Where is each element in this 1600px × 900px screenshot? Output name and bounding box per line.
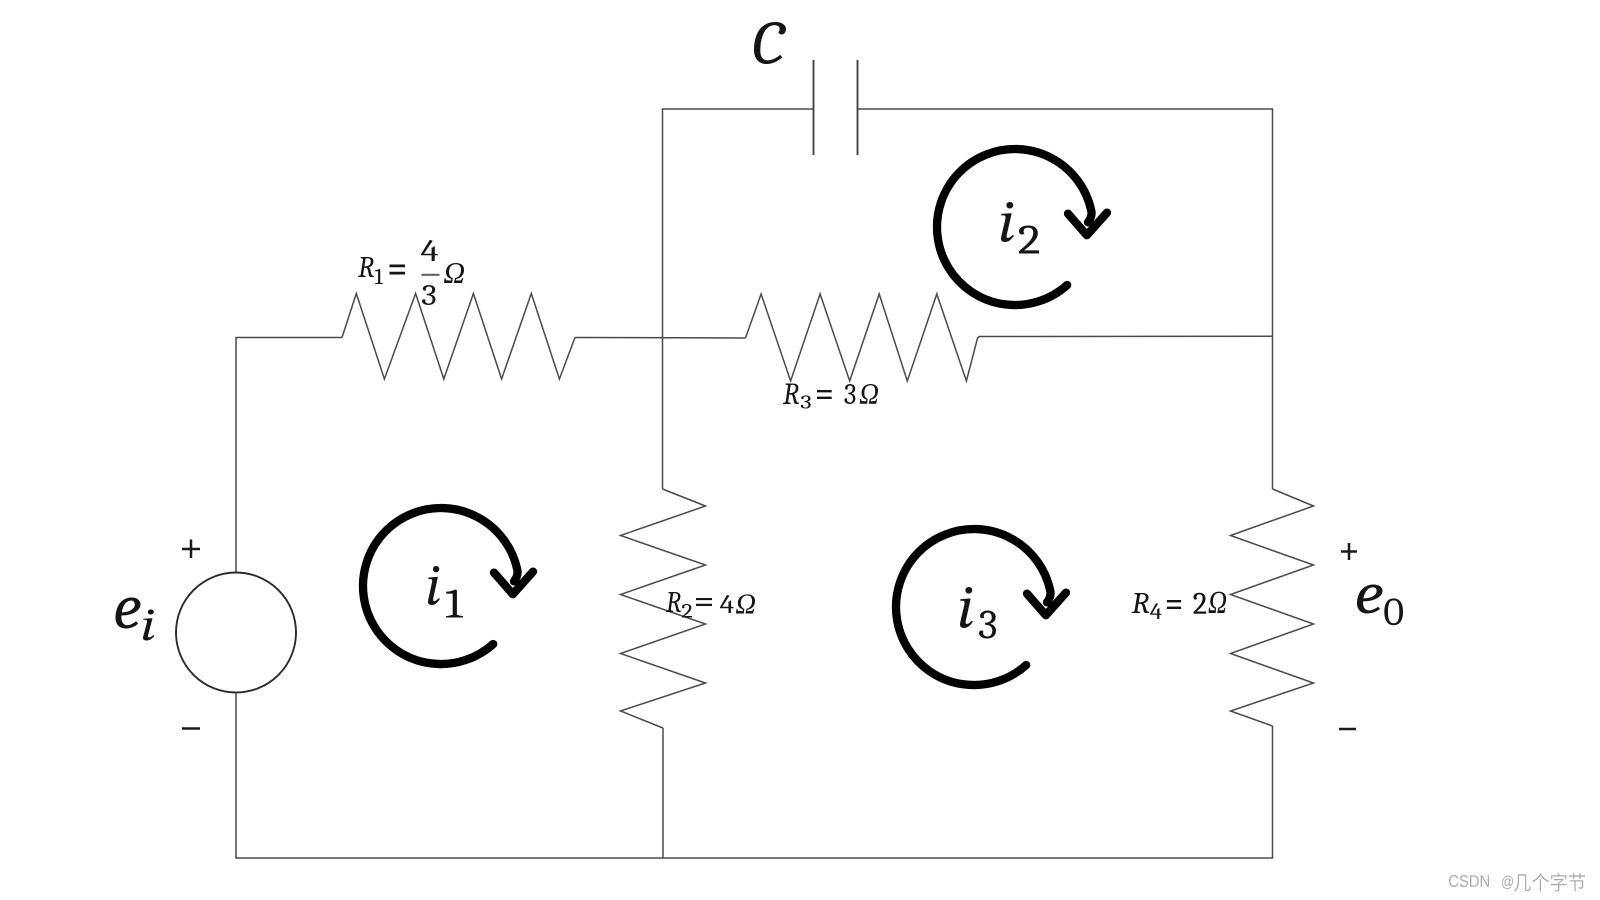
label e_i	[116, 598, 141, 629]
capacitor C right plate	[857, 60, 859, 155]
R1 fraction bar	[422, 274, 440, 276]
mesh current loop i2 arc	[937, 149, 1092, 305]
label i2	[1001, 202, 1014, 242]
watermark CJK characters	[1514, 873, 1585, 892]
wire: capacitor to top-right corner	[858, 108, 1274, 110]
capacitor C left plate	[813, 60, 815, 155]
label i1	[428, 566, 440, 605]
source minus mark	[182, 727, 200, 730]
wire: node between R1 and R3	[575, 337, 746, 340]
watermark CSDN	[1449, 875, 1489, 887]
mesh current loop i1 arrowhead	[494, 572, 533, 595]
wire: R4 bottom lead	[1272, 726, 1274, 858]
wire: R3 right lead to right rail	[979, 335, 1273, 337]
source plus mark	[182, 540, 200, 559]
label R4 = 2 ohm	[1132, 593, 1150, 613]
wire: left vertical, R1 node to source top	[235, 338, 237, 573]
label R2 = 4 ohm	[666, 592, 681, 612]
wire: R2 bottom lead	[662, 728, 664, 858]
R1 fraction denominator and unit	[422, 285, 436, 305]
label R1 = 4/3 ohm	[358, 257, 374, 277]
label R3 = 3 ohm	[783, 384, 799, 405]
label i3	[960, 587, 973, 628]
watermark @	[1502, 876, 1513, 890]
label C (capacitor)	[754, 22, 786, 64]
output minus mark	[1339, 728, 1356, 731]
resistor R3 zigzag	[746, 294, 980, 381]
mesh current loop i2 arrowhead	[1068, 213, 1107, 236]
label e_0	[1357, 585, 1383, 614]
wire: middle vertical, capacitor corner to R2 top	[662, 109, 664, 490]
wire: bottom rail	[235, 857, 1273, 859]
resistor R2 zigzag	[621, 489, 706, 728]
mesh current loop i3 arc	[896, 529, 1051, 685]
mesh current loop i1 arc	[363, 508, 518, 664]
resistor R4 zigzag	[1231, 489, 1314, 726]
wire: R1 left lead	[235, 337, 342, 339]
resistor R1 zigzag	[342, 294, 575, 380]
wire: right vertical, top corner to R4 top	[1272, 109, 1274, 490]
voltage source e_i circle	[176, 573, 296, 693]
mesh current loop i3 arrowhead	[1027, 593, 1066, 616]
wire: left vertical, source bottom to bottom rail	[235, 693, 237, 859]
output plus mark	[1341, 543, 1357, 560]
wire: top-left segment to capacitor	[662, 108, 814, 110]
